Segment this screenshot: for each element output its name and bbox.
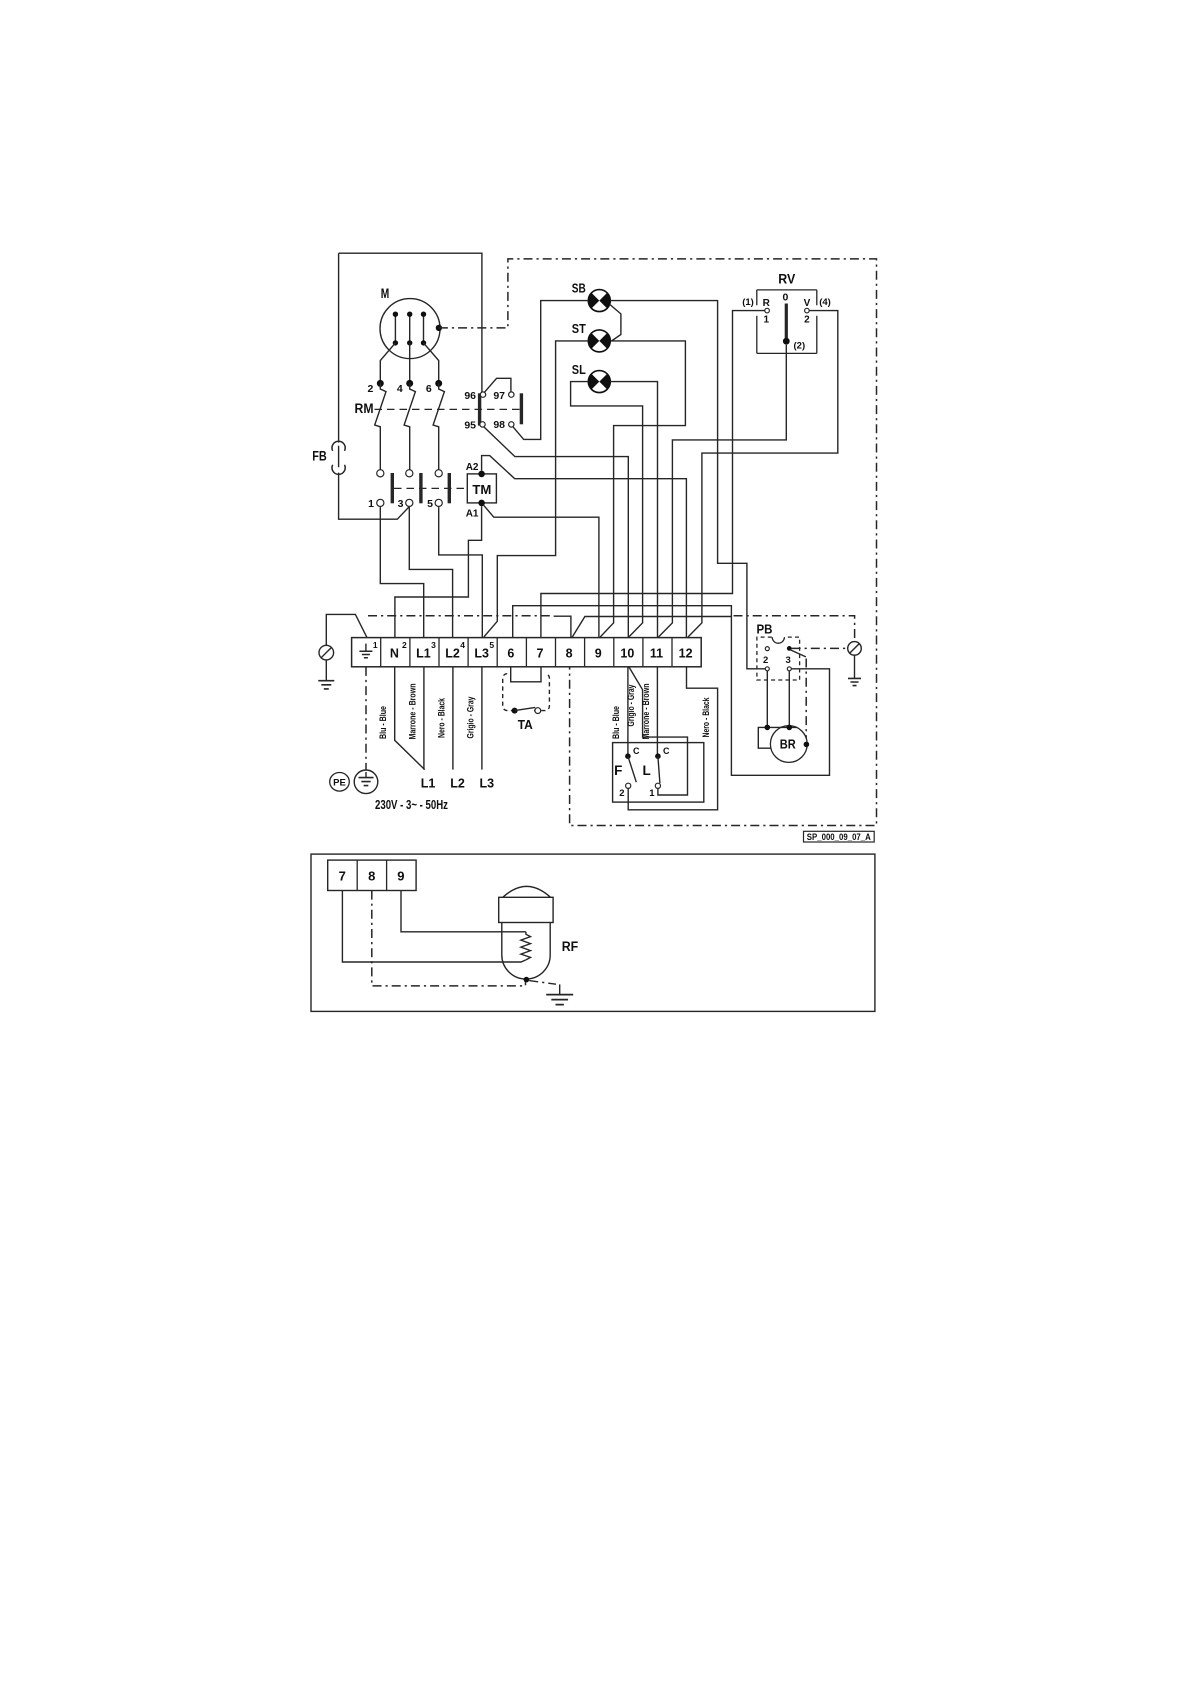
label PE	[330, 773, 350, 792]
label Nero - Black	[436, 697, 447, 738]
svg-text:V: V	[804, 298, 811, 309]
wire terminal 6 to BR loop	[513, 606, 830, 776]
svg-text:95: 95	[464, 420, 476, 432]
RM thermal contacts poles 2-4-6	[367, 380, 444, 470]
wire bottom 7 to RF	[342, 891, 526, 962]
label Marrone - Brown L	[641, 683, 652, 739]
ground RF	[546, 995, 573, 1005]
svg-text:9: 9	[595, 646, 602, 660]
label L1 phase	[421, 777, 436, 791]
svg-text:Nero - Black: Nero - Black	[436, 697, 447, 738]
svg-text:(4): (4)	[819, 297, 831, 308]
lamp ST	[572, 322, 611, 352]
svg-text:ST: ST	[572, 322, 586, 336]
svg-text:SL: SL	[572, 363, 586, 377]
svg-text:M: M	[381, 285, 390, 301]
wire terminals 6-7 bridge	[511, 667, 541, 682]
svg-text:4: 4	[460, 640, 465, 650]
svg-text:12: 12	[679, 646, 693, 660]
label SP_000_09_07_A	[804, 831, 875, 842]
svg-text:2: 2	[619, 788, 624, 799]
svg-text:L1: L1	[416, 646, 431, 660]
label Grigio - Gray	[465, 696, 476, 739]
wire A2 to terminal 12	[482, 456, 687, 638]
svg-text:N: N	[390, 646, 399, 660]
terminal 97	[493, 390, 514, 402]
aux contact bar 95-96	[478, 393, 481, 425]
wire SB right link to ST	[610, 305, 621, 342]
svg-text:2: 2	[367, 383, 373, 395]
PB terminal 2 top	[765, 647, 769, 651]
svg-text:2: 2	[804, 315, 810, 326]
label (4)	[819, 297, 831, 308]
contactor contact terminals (circles)	[377, 470, 443, 507]
svg-text:10: 10	[620, 646, 634, 660]
svg-text:1: 1	[368, 498, 374, 510]
wire terminal 12 black to F2	[628, 667, 717, 810]
terminal 96	[464, 390, 485, 402]
TA switch	[512, 707, 541, 713]
earth electrode PE	[354, 770, 378, 794]
screw left	[319, 645, 334, 660]
svg-text:230V - 3~ - 50Hz: 230V - 3~ - 50Hz	[375, 797, 448, 812]
svg-text:FB: FB	[312, 449, 327, 464]
wire contact 1 to terminal L1	[380, 507, 423, 637]
ground below left screw	[318, 660, 334, 689]
svg-text:1: 1	[373, 640, 378, 650]
wire SB right to PB terminal 2	[610, 301, 765, 669]
svg-text:5: 5	[427, 498, 433, 510]
svg-text:Grigio - Gray: Grigio - Gray	[465, 696, 476, 739]
wire contact 5 to terminal L3	[439, 507, 483, 637]
wire terminal 8 right feed to node	[572, 617, 731, 638]
terminal 95	[464, 420, 485, 432]
svg-text:8: 8	[368, 868, 375, 883]
wire screw to terminal 1	[326, 614, 367, 645]
svg-text:3: 3	[786, 655, 791, 666]
chassis dash-dot node to right screw	[734, 616, 855, 642]
svg-text:0: 0	[782, 292, 788, 304]
svg-text:1: 1	[764, 315, 770, 326]
wire 95 to terminal 10	[484, 427, 628, 637]
PB blade	[790, 650, 806, 657]
svg-text:A1: A1	[466, 509, 479, 520]
svg-text:3: 3	[431, 640, 436, 650]
svg-text:PB: PB	[757, 623, 773, 637]
PB labels 2 3	[763, 655, 791, 666]
svg-text:Marrone - Brown: Marrone - Brown	[407, 683, 418, 739]
svg-text:C: C	[633, 746, 640, 756]
wire A1 to N terminal	[395, 506, 482, 637]
TA contact mask	[518, 708, 535, 714]
svg-text:6: 6	[507, 646, 514, 660]
wire SL right to terminal 11	[610, 382, 657, 638]
label F	[614, 763, 622, 778]
label Blu - Blue F	[611, 706, 622, 739]
label 0	[782, 292, 788, 304]
terminal R	[763, 298, 771, 326]
connector FB arcs	[332, 441, 345, 474]
svg-text:BR: BR	[780, 738, 796, 752]
wire RV V to terminal 12 diagonal	[688, 311, 838, 637]
wire terminal 10 to F	[627, 667, 629, 754]
svg-text:Marrone - Brown: Marrone - Brown	[641, 683, 652, 739]
wire A1 to terminal 9	[483, 505, 599, 637]
svg-text:L2: L2	[445, 646, 460, 660]
contactor moving bars	[392, 473, 449, 503]
aux contact bar 97-98	[520, 393, 523, 424]
svg-text:9: 9	[397, 868, 404, 883]
contactor link dashed to TM	[394, 487, 467, 489]
wire terminal 11 to L	[656, 667, 658, 754]
coil TM box	[467, 474, 496, 503]
svg-text:2: 2	[763, 655, 768, 666]
label Blu - Blue	[378, 706, 389, 739]
wire 96 to 97 bridge	[484, 378, 511, 392]
label PB	[757, 623, 773, 637]
wire terminal 8 left feed	[554, 616, 571, 637]
chassis dash-dot terminal1 to right	[368, 615, 553, 617]
terminal A2	[466, 462, 485, 477]
label RF	[562, 939, 579, 954]
svg-text:A2: A2	[466, 462, 479, 473]
wire L3 gray	[481, 667, 483, 770]
svg-text:Grigio - Gray: Grigio - Gray	[626, 684, 637, 727]
dash-dot PB blade to BR	[805, 659, 807, 742]
label BR	[780, 738, 796, 752]
svg-text:7: 7	[339, 868, 346, 883]
PB terminal 2 bottom	[765, 667, 769, 671]
motor frame dot	[436, 325, 442, 331]
terminal 1 earth symbol	[359, 644, 372, 658]
svg-text:6: 6	[426, 383, 432, 395]
label Nero - Black 12	[701, 697, 712, 738]
svg-text:4: 4	[397, 383, 403, 395]
svg-text:Blu - Blue: Blu - Blue	[378, 706, 389, 739]
wire PB3 to BR	[788, 671, 790, 725]
svg-text:C: C	[663, 746, 670, 756]
dash-dot bottom 8 to RF shell	[372, 891, 526, 986]
svg-text:1: 1	[649, 788, 655, 799]
pushbutton PB dashed box	[757, 637, 800, 680]
RF shell dot	[524, 977, 530, 983]
thermostat TA dashed box	[503, 674, 550, 711]
PB terminal 3 bottom	[787, 667, 791, 671]
wire top-left box (node from 96 up over motor to left rail)	[339, 253, 482, 392]
switch L	[649, 746, 670, 799]
terminal V	[804, 298, 811, 326]
bottom frame	[311, 854, 875, 1011]
wire RV wiper 2 to terminal 11 diagonal	[659, 345, 787, 637]
svg-text:96: 96	[464, 390, 476, 402]
wire RV R to terminal 7	[541, 311, 765, 638]
svg-text:TA: TA	[518, 717, 534, 732]
svg-text:(1): (1)	[742, 297, 754, 308]
svg-text:RV: RV	[778, 272, 795, 287]
wire contact 3 to terminal L2	[409, 507, 452, 637]
wire left rail through FB down to RM pole 3 node	[339, 253, 409, 519]
svg-text:Nero - Black: Nero - Black	[701, 697, 712, 738]
svg-text:8: 8	[566, 646, 573, 660]
svg-text:L1: L1	[421, 777, 436, 791]
wire ST right to terminal 9 diagonal	[600, 341, 685, 637]
terminal A1	[466, 500, 485, 520]
label L3 phase	[480, 777, 495, 791]
BR terminal dots	[765, 725, 810, 748]
label L	[642, 763, 650, 778]
svg-text:3: 3	[398, 498, 404, 510]
svg-text:5: 5	[489, 640, 494, 650]
svg-text:PE: PE	[333, 777, 346, 788]
lamp SL	[572, 363, 611, 393]
svg-text:L3: L3	[474, 646, 489, 660]
svg-text:L: L	[642, 763, 650, 778]
svg-text:SP_000_09_07_A: SP_000_09_07_A	[807, 832, 871, 842]
svg-text:RM: RM	[355, 401, 374, 416]
label Marrone - Brown	[407, 683, 418, 739]
dash-dot RF to ground	[529, 981, 560, 995]
svg-text:2: 2	[402, 640, 407, 650]
label TA	[518, 717, 534, 732]
chassis dash-dot PE drop	[365, 667, 367, 770]
wire motor U to RM 2	[380, 343, 395, 380]
svg-text:TM: TM	[472, 482, 491, 497]
terminal 98	[493, 419, 514, 431]
bottom terminals 7 8 9	[328, 860, 416, 890]
wire 98 to SB left	[513, 301, 588, 440]
wire bottom 9 to RF	[401, 891, 526, 932]
svg-text:7: 7	[537, 646, 544, 660]
chassis dash-dot motor frame link	[439, 259, 877, 826]
wire SL left to terminal 10 diagonal	[571, 382, 643, 637]
svg-text:F: F	[614, 763, 622, 778]
svg-text:98: 98	[493, 419, 505, 431]
switch F	[619, 746, 640, 799]
PB terminal 3 top	[787, 646, 792, 651]
label RM	[355, 401, 374, 416]
label (1)	[742, 297, 754, 308]
wire terminal 10 gray loop to L1	[629, 667, 688, 795]
svg-text:L3: L3	[480, 777, 495, 791]
label TM	[472, 482, 491, 497]
label M	[381, 285, 390, 301]
label 230V - 3~ - 50Hz	[375, 797, 448, 812]
svg-text:R: R	[763, 298, 771, 309]
wire motor W to RM 6	[424, 343, 439, 380]
svg-text:RF: RF	[562, 939, 579, 954]
motor M circle	[380, 299, 440, 359]
svg-text:Blu - Blue: Blu - Blue	[611, 706, 622, 739]
wire motor V to RM 4	[409, 343, 411, 380]
lamp SB	[572, 282, 611, 312]
wire N blue	[395, 667, 425, 770]
label FB	[312, 449, 327, 464]
RV wiper	[783, 304, 790, 345]
wire L1 brown	[423, 667, 425, 770]
svg-text:11: 11	[650, 646, 663, 660]
terminal strip labels	[390, 646, 693, 660]
switch box F L	[613, 743, 704, 803]
terminal strip	[352, 638, 702, 667]
label RV	[778, 272, 795, 287]
RM mechanical link dashed	[375, 408, 522, 410]
wire PB2 to BR	[766, 671, 768, 725]
screw right	[848, 642, 862, 656]
blower BR	[758, 726, 807, 763]
motor windings with terminal dots	[393, 312, 427, 346]
label Grigio - Gray L	[626, 684, 637, 727]
terminal strip small numbers	[373, 640, 495, 650]
svg-text:97: 97	[493, 390, 505, 402]
svg-text:SB: SB	[572, 282, 586, 296]
labels 1 3 5	[368, 498, 433, 510]
heater RF body	[499, 886, 553, 979]
wire L2 black	[452, 667, 454, 770]
svg-text:L2: L2	[450, 777, 465, 791]
svg-text:(2): (2)	[794, 341, 806, 352]
selector RV box	[757, 290, 817, 354]
wire ST left to terminal L3 diagonal	[484, 341, 589, 637]
RF element zigzag	[521, 932, 531, 960]
label (2)	[794, 341, 806, 352]
ground below right screw	[848, 655, 861, 685]
dash-dot PB to screw	[792, 647, 848, 649]
label L2 phase	[450, 777, 465, 791]
